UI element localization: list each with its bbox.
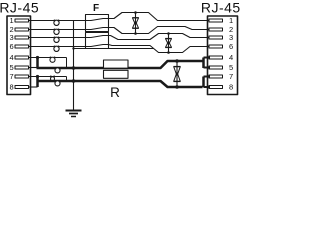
wire line3 [29, 37, 86, 39]
svg-text:3: 3 [229, 33, 233, 42]
arrester G5 line 4 [50, 57, 55, 62]
svg-text:3: 3 [10, 33, 14, 42]
TVS D1 pair 1/2 [135, 13, 137, 34]
arrester G1 line 1 [54, 20, 59, 25]
svg-text:5: 5 [10, 63, 14, 72]
arrester G7 line 7 [51, 77, 55, 81]
wire rail 4/5 thick [37, 61, 203, 68]
pin 1 right [209, 19, 223, 22]
wire pin7 [29, 76, 67, 78]
fuse box F2 lines 3,6 [86, 33, 109, 49]
wire pair1/2 bottom bulge [109, 27, 210, 34]
connector J2 right RJ-45 [208, 16, 238, 95]
pin 3 left [15, 36, 29, 39]
wire line6 [29, 46, 86, 48]
junction right pins 4/5 [202, 58, 205, 69]
pin 6 left [15, 45, 29, 48]
wire pin4 [29, 57, 67, 59]
resistor R2 [104, 70, 129, 78]
wire pair3/6 top [109, 34, 210, 40]
junction pins 4/5 [36, 58, 39, 68]
svg-text:4: 4 [10, 53, 14, 62]
wire pair1/2 top bulge [109, 13, 210, 21]
pin 5 left [15, 66, 29, 69]
pin 4 left [15, 56, 29, 59]
arrester G6 on rail 4/5 [55, 68, 60, 73]
svg-text:4: 4 [229, 53, 233, 62]
svg-text:RJ-45: RJ-45 [0, 0, 39, 15]
pin 5 right [209, 66, 223, 69]
svg-text:6: 6 [229, 42, 233, 51]
pin 1 left [15, 19, 29, 22]
pin 8 left [15, 86, 29, 89]
ground bus [73, 21, 75, 110]
TVS D2 pair 3/6 [168, 34, 170, 53]
resistor R1 [104, 60, 129, 68]
pin 4 right [209, 56, 223, 59]
svg-text:1: 1 [229, 16, 233, 25]
svg-text:8: 8 [229, 83, 233, 92]
pin 2 left [15, 28, 29, 31]
pin 3 right [209, 36, 223, 39]
TVS D3 between rails [176, 61, 178, 87]
svg-text:RJ-45: RJ-45 [201, 0, 240, 15]
pin 7 left [15, 75, 29, 78]
svg-text:5: 5 [229, 63, 233, 72]
svg-text:7: 7 [229, 72, 233, 81]
junction right pins 7/8 [202, 77, 205, 88]
svg-text:6: 6 [10, 42, 14, 51]
svg-text:F: F [93, 3, 99, 14]
arrester G2 line 2 [54, 29, 59, 34]
svg-text:1: 1 [10, 16, 14, 25]
junction pins 7/8 [36, 77, 39, 88]
arrester G8 on rail 7/8 [55, 81, 60, 86]
fuse box F1 lines 1,2 [86, 15, 109, 32]
svg-text:8: 8 [10, 83, 14, 92]
arrester G4 line 6 [54, 46, 59, 51]
pin 2 right [209, 28, 223, 31]
arrester G3 line 3 [54, 37, 59, 42]
wire pair3/6 bottom [109, 45, 210, 53]
wire line1 [29, 20, 86, 22]
connector J1 left RJ-45 [7, 16, 31, 95]
svg-text:R: R [110, 85, 120, 100]
wire line2 [29, 29, 86, 31]
pin 8 right [209, 86, 223, 89]
ground tap to pair 3/6 [74, 48, 154, 50]
svg-text:7: 7 [10, 72, 14, 81]
pin 6 right [209, 45, 223, 48]
pin 7 right [209, 75, 223, 78]
wire rail 7/8 thick [37, 81, 203, 87]
ground symbol [66, 110, 82, 112]
